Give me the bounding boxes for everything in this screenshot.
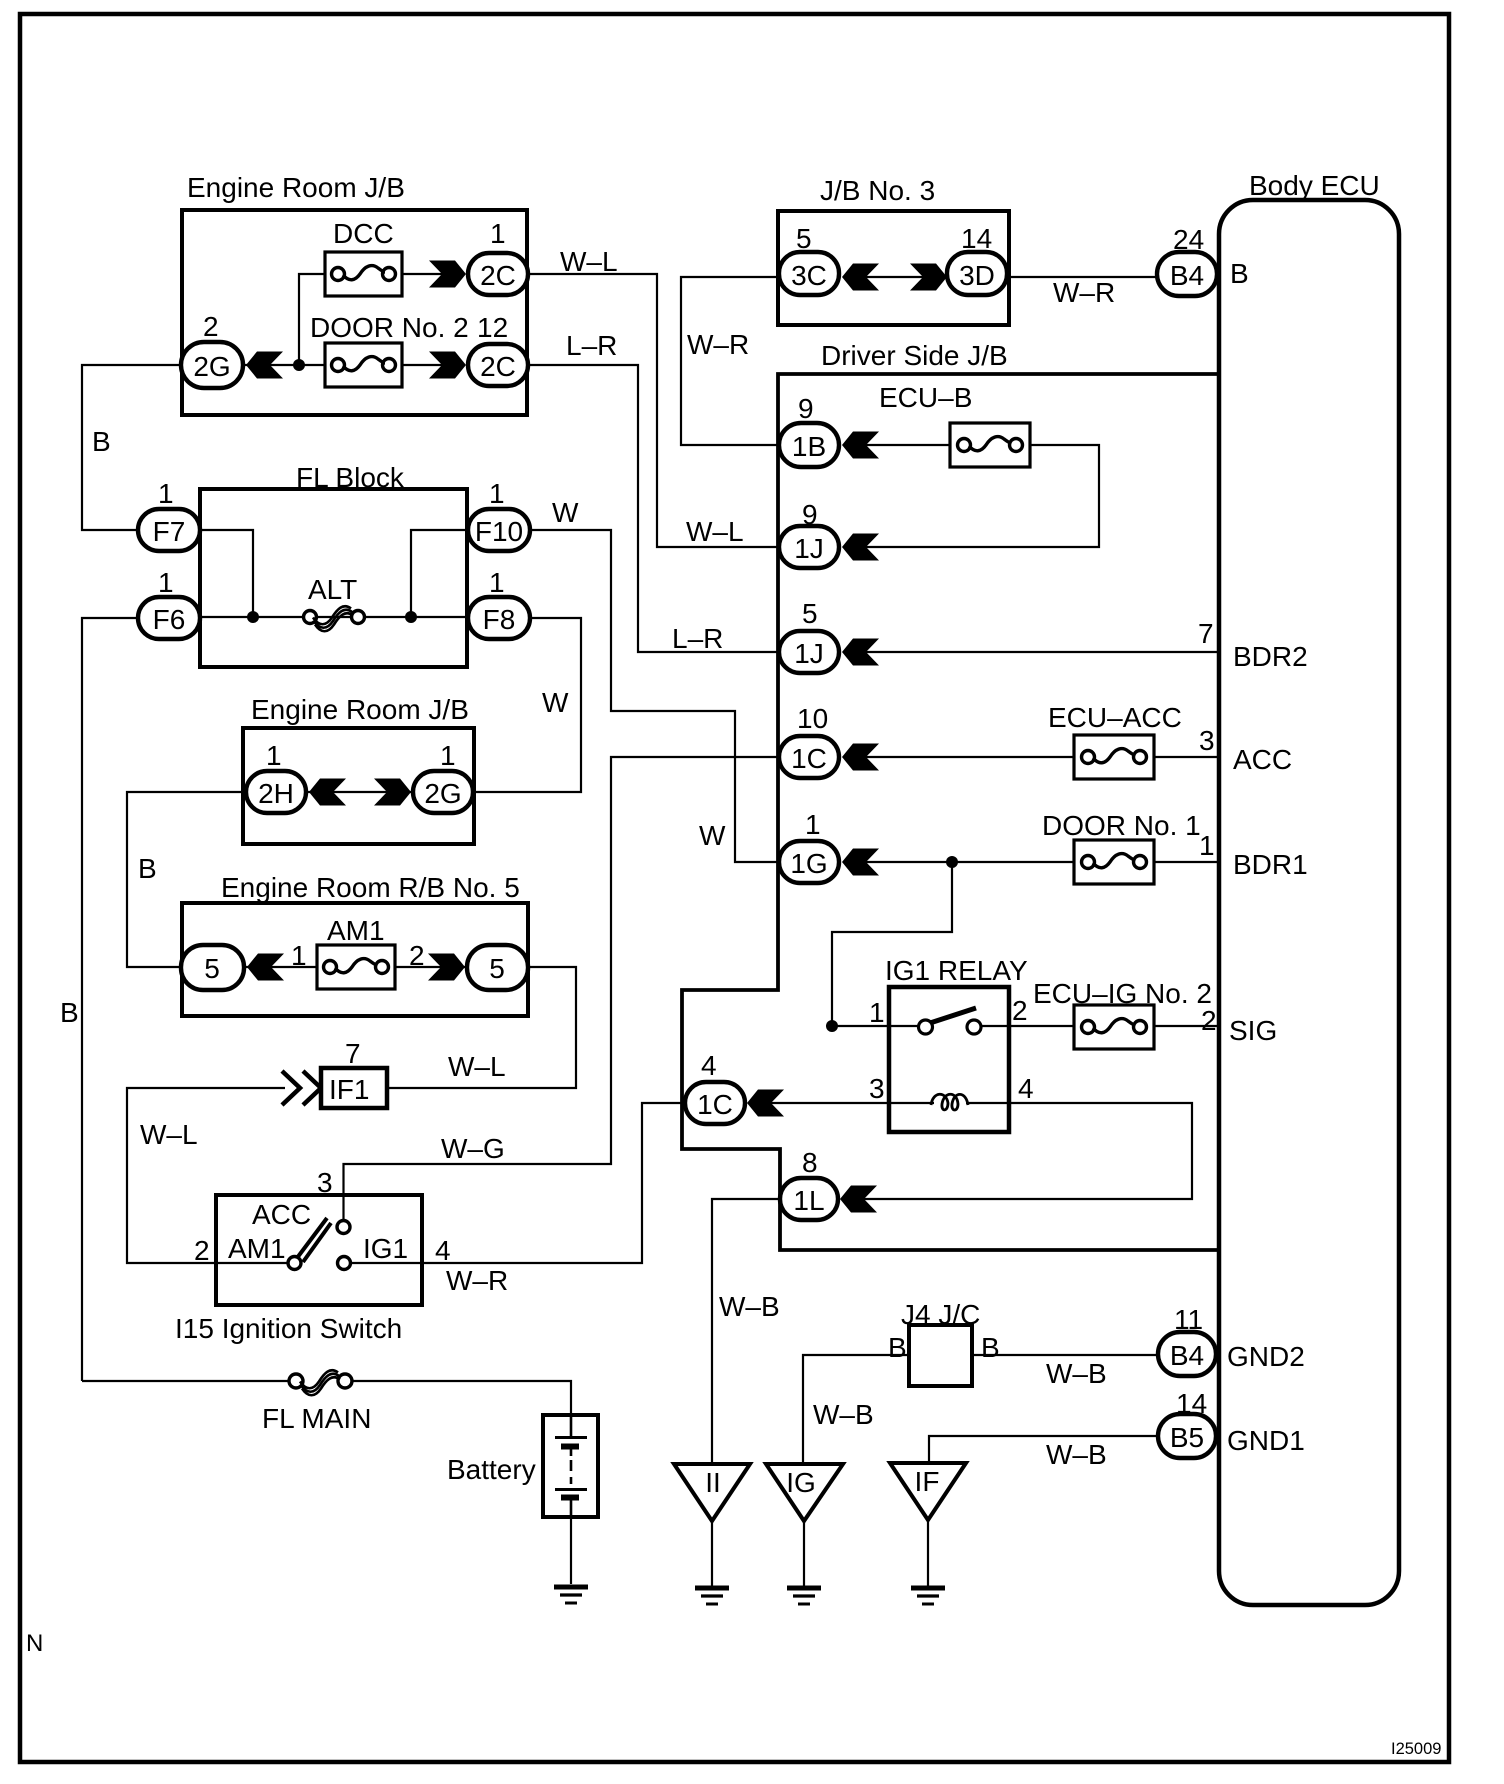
connector oval F10 — [468, 509, 530, 551]
svg-text:ECU–ACC: ECU–ACC — [1048, 702, 1182, 733]
wire F10 internal — [411, 530, 468, 617]
wire DOOR No.1 fuse to BDR1 — [1154, 861, 1219, 863]
svg-text:2G: 2G — [424, 778, 461, 809]
svg-text:W–B: W–B — [1046, 1439, 1107, 1470]
svg-text:1C: 1C — [697, 1089, 733, 1120]
svg-text:J/B No. 3: J/B No. 3 — [820, 175, 935, 206]
connector oval 5 left — [181, 945, 244, 990]
relay switch contact left — [919, 1020, 933, 1034]
svg-text:2: 2 — [203, 311, 219, 342]
connector oval F7 — [138, 509, 200, 551]
ignition switch IG1 contact — [338, 1257, 351, 1270]
svg-text:W–L: W–L — [686, 516, 744, 547]
svg-text:W–L: W–L — [448, 1051, 506, 1082]
wire W from F10 to 1G — [530, 530, 779, 862]
connector oval B4 pin24 — [1157, 252, 1217, 296]
FL Block box — [200, 489, 467, 667]
node junction on BDR1 wire — [946, 856, 958, 868]
svg-text:5: 5 — [796, 223, 812, 254]
svg-text:FL Block: FL Block — [296, 462, 405, 493]
node junction F7 branch — [247, 611, 259, 623]
svg-text:W–L: W–L — [140, 1119, 198, 1150]
svg-text:1: 1 — [869, 997, 885, 1028]
svg-text:1: 1 — [440, 740, 456, 771]
svg-text:BDR1: BDR1 — [1233, 849, 1308, 880]
wire between 3C and 3D arrows — [866, 276, 923, 278]
svg-text:GND2: GND2 — [1227, 1341, 1305, 1372]
svg-text:BDR2: BDR2 — [1233, 641, 1308, 672]
wire II triangle stem — [711, 1521, 713, 1587]
arrow into 1J pin9 — [842, 534, 879, 561]
wire ECU-ACC fuse to ACC pin — [1154, 756, 1219, 758]
chevron connector at IF1 — [282, 1071, 321, 1105]
J/B No.3 box — [778, 211, 1009, 325]
svg-text:IF1: IF1 — [329, 1074, 369, 1105]
svg-text:W: W — [542, 687, 569, 718]
svg-text:1: 1 — [489, 478, 505, 509]
svg-text:2: 2 — [194, 1235, 210, 1266]
arrow into 1L — [840, 1186, 877, 1213]
wire W-R from 3D to B4 — [1007, 276, 1157, 278]
svg-text:J4 J/C: J4 J/C — [901, 1299, 980, 1330]
wire L-R from 2C pin12 to 1J pin5 — [528, 365, 779, 652]
svg-text:2: 2 — [1201, 1005, 1217, 1036]
connector oval F8 — [468, 597, 530, 639]
wire W-B from GND1 B5 to IF ground — [929, 1436, 1158, 1463]
wire between 2H and 2G arrows — [306, 791, 411, 793]
svg-text:ALT: ALT — [308, 574, 357, 605]
svg-text:12: 12 — [477, 312, 508, 343]
svg-text:B4: B4 — [1170, 260, 1204, 291]
wire relay pin1 internal — [889, 1025, 920, 1027]
svg-text:1J: 1J — [794, 533, 824, 564]
arrow into 1C pin4 — [747, 1090, 784, 1117]
arrow into 1G — [842, 849, 879, 876]
svg-text:B: B — [60, 997, 79, 1028]
fusible link FL MAIN — [289, 1370, 352, 1395]
svg-text:2G: 2G — [193, 351, 230, 382]
svg-text:W–B: W–B — [719, 1291, 780, 1322]
wire 1J pin5 to BDR2 — [864, 651, 1219, 653]
svg-text:ECU–B: ECU–B — [879, 382, 972, 413]
battery box — [543, 1415, 598, 1517]
arrow into 1J pin5 — [842, 639, 879, 666]
svg-text:B: B — [888, 1332, 907, 1363]
wire W-B from 1L to II ground — [712, 1199, 780, 1464]
wire FL MAIN left segment — [82, 1380, 290, 1382]
svg-text:3D: 3D — [959, 260, 995, 291]
svg-text:9: 9 — [798, 393, 814, 424]
svg-text:W–R: W–R — [1053, 277, 1115, 308]
svg-text:5: 5 — [489, 953, 505, 984]
svg-text:Engine Room R/B No. 5: Engine Room R/B No. 5 — [221, 872, 520, 903]
ignition switch ACC contact — [337, 1221, 350, 1234]
arrow into 1B — [842, 432, 879, 459]
arrow into 3C — [842, 264, 879, 291]
connector oval 5 right — [467, 945, 528, 990]
svg-text:1: 1 — [1199, 830, 1215, 861]
svg-text:W: W — [552, 497, 579, 528]
svg-text:4: 4 — [1018, 1073, 1034, 1104]
svg-text:W–B: W–B — [813, 1399, 874, 1430]
ground below battery — [554, 1587, 588, 1603]
svg-text:4: 4 — [701, 1050, 717, 1081]
svg-text:Body ECU: Body ECU — [1249, 170, 1380, 201]
connector oval 1C pin10 — [779, 736, 839, 778]
connector oval 2G pin2 — [181, 342, 243, 388]
arrow into 2H — [309, 779, 346, 806]
svg-text:1J: 1J — [794, 638, 824, 669]
connector oval B5 pin14 — [1158, 1414, 1216, 1458]
svg-text:AM1: AM1 — [327, 915, 385, 946]
ground symbol IG — [787, 1588, 821, 1604]
connector oval 1J pin9 — [779, 526, 839, 568]
ground symbol IF — [911, 1588, 945, 1604]
svg-text:B: B — [138, 853, 157, 884]
svg-text:2C: 2C — [480, 260, 516, 291]
svg-text:1B: 1B — [792, 431, 826, 462]
wire FL MAIN to battery — [351, 1381, 571, 1415]
Body ECU outline — [1219, 200, 1399, 1605]
svg-text:L–R: L–R — [566, 330, 617, 361]
wire 5 to AM1 fuse — [244, 966, 317, 968]
svg-text:1: 1 — [158, 478, 174, 509]
svg-text:1: 1 — [805, 809, 821, 840]
wire 1C pin10 to ECU-ACC fuse — [864, 756, 1074, 758]
node junction on DOOR No.2 wire — [293, 359, 305, 371]
fuse ECU-B — [950, 423, 1030, 467]
arrow into 1C pin10 — [842, 744, 879, 771]
ground IG triangle — [766, 1464, 843, 1521]
ground symbol II — [695, 1588, 729, 1604]
wire ECU-IG fuse to SIG pin — [1154, 1025, 1219, 1027]
wire W-L from AM1 contact to IF1 chevrons — [127, 1088, 288, 1263]
svg-text:1: 1 — [490, 218, 506, 249]
wire 1G to DOOR No.1 fuse — [864, 861, 1074, 863]
svg-text:DCC: DCC — [333, 218, 394, 249]
wire relay pin2 internal — [978, 1025, 1009, 1027]
svg-text:4: 4 — [435, 1235, 451, 1266]
wire 2G pin2 to DOOR No.2 fuse — [243, 364, 325, 366]
wire 1B arrow to ECU-B fuse — [864, 444, 950, 446]
svg-text:ACC: ACC — [1233, 744, 1292, 775]
svg-text:IG1 RELAY: IG1 RELAY — [885, 955, 1028, 986]
svg-text:IG1: IG1 — [363, 1233, 408, 1264]
IF1 connector box — [321, 1068, 387, 1108]
svg-text:B: B — [92, 426, 111, 457]
svg-text:1G: 1G — [790, 848, 827, 879]
svg-text:ECU–IG No. 2: ECU–IG No. 2 — [1033, 978, 1212, 1009]
wire W-R from IG1 contact to 1C pin4 — [350, 1103, 685, 1263]
wire F7 internal — [200, 530, 253, 617]
svg-text:B: B — [981, 1332, 1000, 1363]
connector oval 1J pin5 — [779, 631, 839, 673]
svg-text:1L: 1L — [793, 1185, 824, 1216]
connector oval 1C pin4 — [685, 1082, 745, 1124]
Engine Room R/B No.5 box — [182, 903, 528, 1016]
arrow into 2C pin1 — [429, 261, 466, 288]
svg-text:F8: F8 — [483, 604, 516, 635]
svg-text:1: 1 — [291, 940, 307, 971]
svg-text:2H: 2H — [258, 778, 294, 809]
svg-text:W–R: W–R — [446, 1265, 508, 1296]
svg-text:3: 3 — [869, 1073, 885, 1104]
connector oval 2C pin1 — [468, 253, 528, 295]
svg-text:3: 3 — [317, 1167, 333, 1198]
wire W-L from 2C pin1 to 1J pin9 — [528, 274, 779, 547]
svg-text:3: 3 — [1199, 725, 1215, 756]
svg-text:Engine Room J/B: Engine Room J/B — [187, 172, 405, 203]
fuse ECU-ACC — [1074, 735, 1154, 779]
wire 1C pin4 arrow to relay pin3 — [771, 1102, 889, 1104]
svg-text:2: 2 — [1012, 995, 1028, 1026]
svg-text:14: 14 — [1176, 1388, 1207, 1419]
fuse DOOR No.2 — [325, 343, 402, 387]
connector oval 3C pin5 — [779, 252, 839, 295]
svg-text:3C: 3C — [791, 260, 827, 291]
I15 ignition switch box — [216, 1195, 422, 1305]
node junction F10 branch — [405, 611, 417, 623]
Engine Room J/B box (second) — [243, 728, 474, 844]
svg-text:B: B — [1230, 258, 1249, 289]
wire IG triangle stem — [803, 1521, 805, 1587]
svg-text:L–R: L–R — [672, 623, 723, 654]
svg-text:1C: 1C — [791, 743, 827, 774]
wire relay pin2 to ECU-IG fuse — [1009, 1025, 1074, 1027]
svg-text:SIG: SIG — [1229, 1015, 1277, 1046]
wire W from F8 to 2G — [473, 618, 581, 792]
wire W-G from ACC contact to 1C pin10 — [344, 757, 780, 1221]
svg-text:9: 9 — [802, 499, 818, 530]
svg-text:FL MAIN: FL MAIN — [262, 1403, 371, 1434]
svg-text:F7: F7 — [153, 516, 186, 547]
ground IF triangle — [890, 1463, 966, 1520]
J4 J/C box — [909, 1325, 972, 1386]
wire battery to ground — [570, 1517, 572, 1584]
wire W-L from 5 to IF1 — [387, 967, 576, 1088]
connector oval F6 — [138, 597, 200, 639]
arrow into 2C pin12 — [429, 352, 466, 379]
ignition switch AM1 contact — [288, 1257, 301, 1270]
svg-text:24: 24 — [1173, 224, 1204, 255]
svg-text:GND1: GND1 — [1227, 1425, 1305, 1456]
relay coil — [931, 1094, 968, 1110]
wire relay pin4 to 1L pin8 — [864, 1103, 1192, 1199]
svg-text:W–G: W–G — [441, 1133, 505, 1164]
IG1 relay box — [889, 987, 1009, 1132]
wire B from 2G pin2 to F7 — [82, 365, 181, 530]
connector oval 2G (second) — [413, 771, 473, 813]
Driver Side J/B box — [682, 374, 1218, 1250]
svg-text:7: 7 — [345, 1038, 361, 1069]
svg-text:10: 10 — [797, 703, 828, 734]
Engine Room J/B box (top) — [182, 210, 527, 415]
svg-text:B4: B4 — [1170, 1340, 1204, 1371]
svg-text:N: N — [26, 1630, 43, 1657]
svg-text:5: 5 — [204, 953, 220, 984]
arrow into 5 left — [247, 954, 284, 981]
svg-text:F6: F6 — [153, 604, 186, 635]
svg-text:W–R: W–R — [687, 329, 749, 360]
svg-text:1: 1 — [266, 740, 282, 771]
svg-text:I15 Ignition Switch: I15 Ignition Switch — [175, 1313, 402, 1344]
connector oval 2H — [246, 771, 306, 813]
wire W-B from J4 J/C to IG ground — [803, 1355, 909, 1464]
fusible link ALT — [304, 606, 365, 631]
battery symbol internals — [555, 1415, 587, 1517]
svg-text:B5: B5 — [1170, 1422, 1204, 1453]
svg-text:Engine Room J/B: Engine Room J/B — [251, 694, 469, 725]
relay switch contact right — [967, 1020, 981, 1034]
fuse DCC — [325, 252, 402, 296]
svg-text:Battery: Battery — [447, 1454, 536, 1485]
wire W-B from J4 J/C to GND2 B4 — [972, 1354, 1158, 1356]
svg-text:1: 1 — [489, 567, 505, 598]
relay switch blade — [930, 1008, 976, 1023]
connector oval 1L pin8 — [780, 1178, 838, 1220]
svg-text:I25009: I25009 — [1391, 1740, 1441, 1758]
connector oval 3D pin14 — [947, 252, 1007, 295]
ignition switch lever — [297, 1218, 331, 1262]
svg-text:2: 2 — [409, 940, 425, 971]
wire W-R from 3C to 1B — [681, 277, 779, 445]
svg-text:W: W — [699, 820, 726, 851]
wire DOOR No.2 fuse to 2C pin12 — [402, 364, 442, 366]
svg-text:7: 7 — [1198, 618, 1214, 649]
svg-text:F10: F10 — [475, 516, 523, 547]
svg-text:W–B: W–B — [1046, 1358, 1107, 1389]
wire DCC fuse to 2C pin1 — [402, 273, 442, 275]
svg-text:ACC: ACC — [252, 1199, 311, 1230]
fuse AM1 — [317, 945, 395, 989]
arrow into 3D — [910, 264, 947, 291]
svg-text:IG: IG — [786, 1467, 816, 1498]
arrow into 5 right — [428, 954, 465, 981]
connector oval 2C pin12 — [468, 344, 528, 386]
wire relay coil right internal — [966, 1102, 1009, 1104]
svg-text:14: 14 — [961, 223, 992, 254]
wire F6 to F8 through ALT — [200, 616, 468, 618]
connector oval 1G pin1 — [779, 841, 839, 883]
svg-text:DOOR No. 1: DOOR No. 1 — [1042, 810, 1201, 841]
svg-text:1: 1 — [158, 567, 174, 598]
wire AM1 fuse to 5 — [395, 966, 467, 968]
arrow into 2G pin2 — [246, 352, 283, 379]
node junction at relay pin1 — [826, 1020, 838, 1032]
wire relay coil left internal — [889, 1102, 934, 1104]
wire IF triangle stem — [927, 1520, 929, 1587]
svg-text:2C: 2C — [480, 351, 516, 382]
fuse ECU-IG No.2 — [1074, 1005, 1154, 1049]
svg-text:IF: IF — [915, 1466, 940, 1497]
fuse DOOR No.1 — [1074, 840, 1154, 884]
wire BDR1 branch to relay pin1 — [832, 862, 952, 1026]
wire B from F6 down to FL MAIN — [82, 618, 138, 1381]
ground II triangle — [674, 1464, 750, 1521]
svg-text:8: 8 — [802, 1147, 818, 1178]
svg-text:II: II — [705, 1467, 721, 1498]
svg-text:11: 11 — [1174, 1304, 1203, 1335]
arrow into 2G second — [374, 779, 411, 806]
svg-text:AM1: AM1 — [228, 1233, 286, 1264]
wire B from 2H to 5 — [127, 792, 246, 967]
svg-text:5: 5 — [802, 598, 818, 629]
wire ECU-B fuse loop to 1J pin9 — [864, 445, 1099, 547]
connector oval 1B pin9 — [779, 423, 839, 467]
svg-text:Driver Side J/B: Driver Side J/B — [821, 340, 1008, 371]
wire DCC fuse left branch — [299, 274, 325, 365]
svg-text:DOOR No. 2: DOOR No. 2 — [310, 312, 469, 343]
svg-text:W–L: W–L — [560, 246, 618, 277]
connector oval B4 pin11 — [1158, 1332, 1216, 1376]
